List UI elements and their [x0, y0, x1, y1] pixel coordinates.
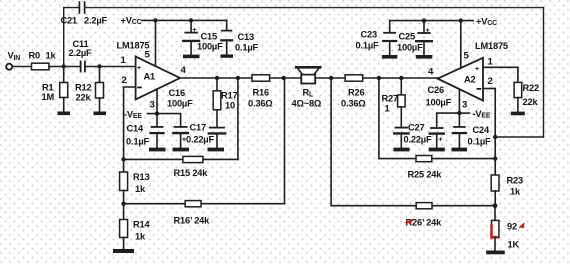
svg-text:R12: R12	[75, 83, 91, 93]
svg-text:92: 92	[507, 222, 517, 232]
red triangle on R24 label	[519, 222, 525, 228]
ground under C13	[221, 54, 234, 57]
svg-text:1k: 1k	[46, 51, 57, 61]
svg-text:R27: R27	[382, 94, 398, 104]
svg-text:LM1875: LM1875	[475, 41, 508, 51]
junction speaker left	[282, 76, 286, 80]
wire R26' row from speaker right	[331, 78, 495, 206]
svg-text:10: 10	[225, 101, 235, 111]
svg-text:+VCC: +VCC	[476, 17, 497, 28]
svg-text:5: 5	[464, 51, 470, 62]
resistor R16	[252, 75, 270, 81]
wire -Vee stub right	[459, 112, 469, 114]
svg-text:0.1µF: 0.1µF	[356, 41, 379, 51]
polarity - A1	[137, 87, 142, 89]
svg-text:A1: A1	[144, 72, 156, 82]
op-amp A2	[438, 58, 483, 101]
wire +Vcc rail right	[390, 20, 474, 22]
svg-text:R1: R1	[42, 83, 54, 93]
junction C21-line/pin2	[493, 135, 497, 139]
ground under C27	[394, 148, 410, 152]
resistor R23	[491, 175, 499, 206]
svg-text:0.1µF: 0.1µF	[235, 43, 258, 53]
svg-text:1K: 1K	[508, 240, 520, 250]
capacitor C26	[430, 113, 460, 148]
svg-text:1k: 1k	[510, 187, 521, 197]
svg-text:100µF: 100µF	[426, 98, 452, 108]
svg-text:2: 2	[488, 76, 493, 87]
wire A2 inverting vertical	[494, 89, 496, 176]
ground under R22	[511, 112, 525, 116]
wire C11 to pin1 of A1	[85, 66, 136, 68]
ground under C15	[183, 55, 200, 59]
junction pin5/+Vcc	[153, 18, 157, 22]
svg-text:2.2µF: 2.2µF	[69, 48, 92, 58]
resistor R27	[398, 78, 406, 128]
svg-text:R23: R23	[507, 176, 523, 186]
svg-text:A2: A2	[464, 75, 476, 85]
svg-text:3: 3	[150, 100, 155, 111]
resistor R15	[183, 156, 203, 162]
svg-text:22k: 22k	[523, 97, 539, 107]
wire to A2 inverting node	[495, 136, 543, 138]
speaker RL	[296, 67, 320, 83]
wire R0 to node A	[49, 66, 80, 68]
ground under C24	[452, 148, 468, 152]
svg-text:C25: C25	[399, 32, 415, 42]
junction C25/+Vcc	[422, 18, 426, 22]
svg-text:1k: 1k	[135, 232, 146, 242]
ground under C16	[173, 148, 190, 152]
wire C21 left segment	[64, 7, 79, 9]
ground under R14	[113, 249, 134, 253]
wire pin5 A2 to +Vcc	[460, 21, 462, 69]
ground under R24	[486, 251, 505, 255]
junction -Vee node right	[457, 111, 461, 115]
svg-text:R14: R14	[133, 220, 150, 230]
wire R25 feedback row	[379, 78, 495, 159]
svg-text:+: +	[137, 65, 141, 72]
wire -Vee node to C16	[157, 114, 181, 127]
junction R13/R14/R16'	[121, 202, 125, 206]
junction R25/pin2	[493, 156, 497, 160]
resistor R13	[120, 159, 128, 203]
ground under C17	[208, 148, 225, 152]
svg-text:R13: R13	[133, 172, 149, 182]
svg-text:C16: C16	[169, 88, 185, 98]
node B junction C11/R12	[97, 64, 101, 68]
wire node A up to C21	[63, 8, 65, 67]
wire pin2 A2 stub	[483, 88, 495, 90]
svg-text:RL: RL	[303, 88, 315, 99]
capacitor C24	[453, 113, 466, 148]
junction C15/+Vcc	[189, 18, 193, 22]
svg-text:0.1µF: 0.1µF	[468, 137, 491, 147]
svg-text:5: 5	[145, 50, 151, 61]
svg-text:R16’ 24k: R16’ 24k	[174, 216, 211, 226]
capacitor C15	[183, 20, 199, 54]
wire pin5 A1 to +Vcc	[155, 20, 157, 66]
svg-text:+VCC: +VCC	[121, 16, 142, 27]
junction pin5/+Vcc right	[459, 18, 463, 22]
svg-text:C13: C13	[238, 32, 254, 42]
red slash on R26' label	[404, 219, 414, 224]
junction pin2-A1/R15/R13	[121, 157, 125, 161]
junction speaker right	[329, 76, 333, 80]
svg-text:1k: 1k	[135, 184, 146, 194]
svg-text:-VEE: -VEE	[124, 110, 142, 121]
svg-text:R15 24k: R15 24k	[174, 168, 209, 178]
svg-text:+: +	[426, 28, 430, 35]
wire -Vee stub left	[148, 113, 158, 115]
node VIN input terminal	[6, 64, 12, 70]
wire C21 to right side (long top wire)	[85, 7, 544, 9]
resistor R17	[213, 78, 221, 128]
svg-text:100µF: 100µF	[167, 99, 193, 109]
svg-text:C23: C23	[361, 30, 377, 40]
svg-text:4Ω~8Ω: 4Ω~8Ω	[292, 99, 322, 109]
svg-text:0.22µF: 0.22µF	[404, 135, 432, 145]
capacitor C11	[81, 62, 85, 72]
svg-text:C26: C26	[428, 85, 444, 95]
svg-text:100µF: 100µF	[397, 43, 423, 53]
wire R16' row	[124, 203, 285, 205]
svg-text:1: 1	[385, 104, 390, 114]
ground under C25	[416, 55, 433, 59]
ground under C26	[429, 148, 445, 152]
svg-text:C21: C21	[61, 16, 77, 26]
resistor R0	[32, 63, 50, 70]
capacitor C27	[394, 128, 408, 148]
resistor R24 (red annotated)	[492, 206, 499, 251]
svg-text:+: +	[475, 66, 479, 73]
resistor R12	[96, 67, 104, 112]
svg-text:+: +	[439, 137, 443, 144]
wire pin1 A2 to R22	[483, 66, 518, 68]
svg-text:+: +	[193, 27, 197, 34]
junction output/R27	[399, 76, 403, 80]
capacitor C17	[209, 128, 225, 148]
junction output/R17	[215, 76, 219, 80]
resistor R1	[60, 67, 68, 112]
wire output line A1 to speaker	[180, 77, 301, 79]
junction R26'/R23/R24	[493, 203, 498, 208]
svg-text:-VEE: -VEE	[473, 109, 491, 120]
svg-text:R25 24k: R25 24k	[408, 170, 443, 180]
svg-text:R26: R26	[348, 88, 364, 98]
ground under C14	[149, 148, 166, 152]
svg-text:1M: 1M	[42, 92, 55, 102]
wire down right edge	[543, 8, 545, 137]
svg-text:0.1µF: 0.1µF	[126, 137, 149, 147]
svg-text:4: 4	[181, 65, 187, 76]
svg-text:22k: 22k	[76, 93, 92, 103]
resistor R16'	[185, 201, 201, 207]
svg-text:0.36Ω: 0.36Ω	[248, 99, 273, 109]
capacitor C23	[383, 21, 396, 55]
wire R15 row up to output	[237, 78, 239, 159]
svg-text:R17: R17	[221, 91, 237, 101]
op-amp A1	[136, 57, 180, 100]
capacitor C13	[221, 20, 232, 54]
resistor R26	[345, 75, 363, 81]
svg-text:0.36Ω: 0.36Ω	[341, 99, 366, 109]
svg-text:0.22µF: 0.22µF	[186, 135, 214, 145]
junction output/R15 feedback	[236, 76, 240, 80]
svg-text:2.2µF: 2.2µF	[84, 16, 107, 26]
svg-text:1: 1	[488, 57, 494, 68]
ground under C23	[382, 55, 398, 59]
wire +Vcc rail left	[142, 19, 227, 21]
junction output/R25 feedback	[377, 76, 381, 80]
node A junction R0/C11/R1/C21	[62, 64, 66, 68]
junction -Vee node left	[155, 111, 159, 115]
svg-text:R22: R22	[523, 83, 539, 93]
wire input to R0	[13, 66, 32, 68]
wire R15 feedback row	[124, 158, 238, 160]
capacitor C14	[151, 114, 164, 148]
svg-text:C27: C27	[408, 123, 424, 133]
resistor R26'	[416, 203, 432, 209]
svg-text:4: 4	[428, 67, 434, 78]
resistor R14	[120, 204, 128, 249]
svg-text:100µF: 100µF	[197, 42, 223, 52]
svg-text:C14: C14	[127, 124, 144, 134]
wire R16' row up to speaker left	[284, 78, 286, 204]
svg-text:3: 3	[462, 100, 467, 111]
polarity - A2	[477, 88, 482, 90]
svg-text:C24: C24	[473, 125, 490, 135]
svg-text:C17: C17	[190, 123, 206, 133]
wire pin3 A1 down	[156, 89, 158, 114]
capacitor C25	[416, 21, 432, 55]
svg-text:2: 2	[122, 75, 127, 86]
wire speaker to A2 output	[315, 77, 437, 79]
capacitor C21	[79, 2, 84, 13]
svg-text:VIN: VIN	[8, 51, 21, 63]
ground under R1	[58, 112, 71, 116]
svg-text:C15: C15	[201, 32, 217, 42]
ground under R12	[94, 112, 107, 116]
svg-text:R0: R0	[29, 51, 41, 61]
svg-text:1: 1	[121, 55, 127, 66]
wire pin3 A2 down	[458, 90, 460, 114]
capacitor C16	[173, 127, 188, 148]
wire pin2 stub A1	[124, 87, 136, 159]
resistor R25	[416, 156, 432, 162]
svg-text:R16: R16	[253, 88, 269, 98]
resistor R22	[514, 67, 522, 111]
